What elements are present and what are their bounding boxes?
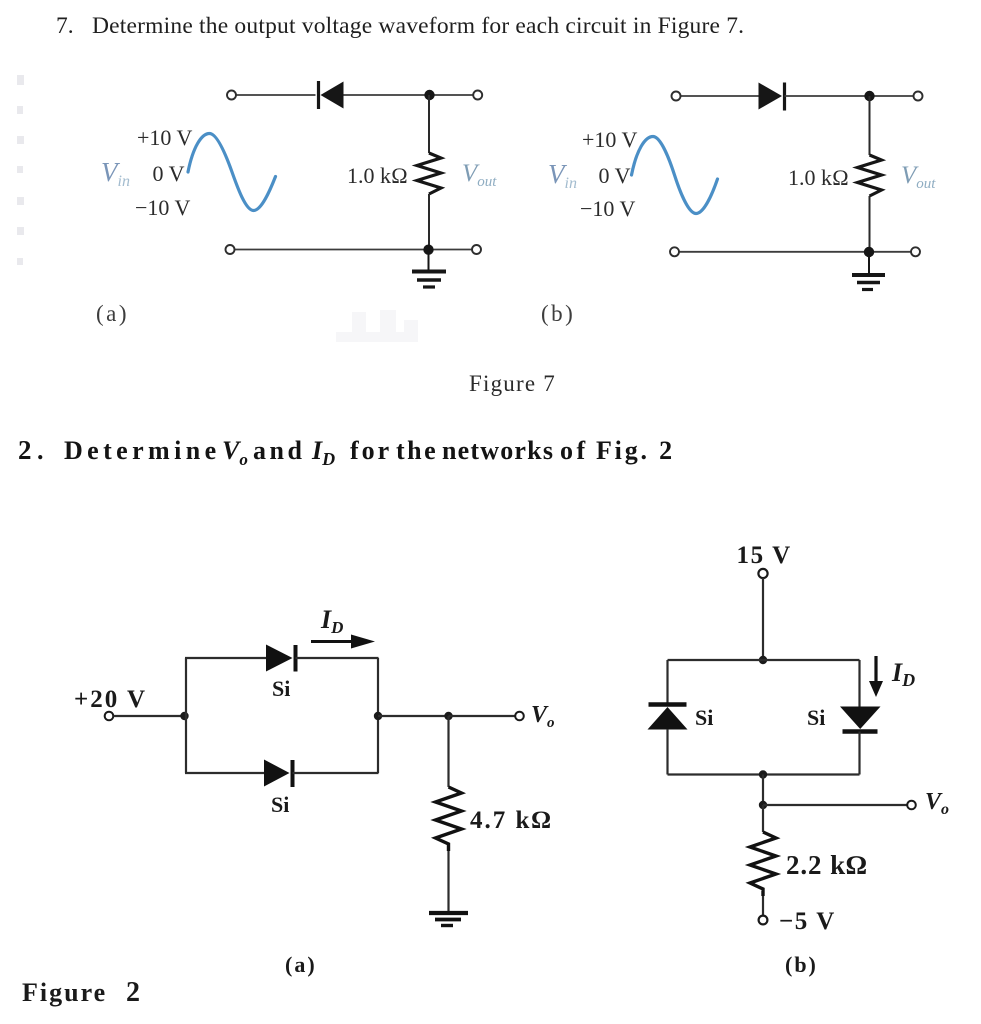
node: left junction	[180, 712, 188, 720]
svg-text:Vout: Vout	[901, 162, 936, 192]
scan artifact: left margin dashes	[17, 75, 24, 265]
wire: bottom junction down to output node	[762, 775, 764, 806]
svg-text:Si: Si	[271, 792, 289, 817]
wire: top branch left segment	[185, 657, 266, 659]
ground: (b)	[852, 256, 885, 290]
arrow: ID direction (a)	[311, 635, 375, 649]
svg-text:Vin: Vin	[101, 157, 130, 190]
resistor R1 1.0 kOhm	[417, 153, 441, 194]
wire: input to left junction	[114, 715, 185, 717]
wire: top branch right segment	[296, 657, 379, 659]
svg-text:0 V: 0 V	[153, 161, 185, 186]
svg-text:Si: Si	[695, 705, 713, 730]
terminal: +20 V input	[105, 712, 114, 721]
wire: output node down to resistor	[447, 716, 449, 787]
svg-text:and: and	[253, 436, 305, 465]
resistor R3 4.7 kOhm	[436, 787, 462, 851]
svg-text:Determine: Determine	[64, 436, 221, 465]
wire: (b) diode to node	[785, 95, 914, 97]
svg-text:ID: ID	[311, 436, 335, 469]
terminal: (a) top-left input	[227, 91, 236, 100]
ground: (a)	[412, 254, 446, 287]
wire: bottom edge of loop	[668, 773, 860, 775]
terminal: (b) top-right output	[914, 92, 923, 101]
svg-text:4.7 kΩ: 4.7 kΩ	[470, 807, 553, 834]
wire: (b) node down to resistor	[869, 96, 871, 155]
svg-text:Vin: Vin	[548, 159, 577, 192]
svg-text:−10 V: −10 V	[135, 195, 191, 220]
svg-text:Si: Si	[272, 676, 290, 701]
node: (a) bottom junction	[423, 245, 433, 255]
terminal: Vo output (a)	[515, 712, 524, 721]
problem 7 title	[56, 13, 744, 39]
svg-text:Vout: Vout	[462, 160, 497, 190]
node: (b) top output junction	[864, 91, 874, 101]
wire: bottom branch right segment	[293, 772, 379, 774]
wire: resistor down to -5 V terminal	[762, 896, 764, 916]
wire: (b) top input wire	[681, 95, 759, 97]
svg-text:−5 V: −5 V	[779, 908, 836, 935]
wire: (b) bottom return wire	[679, 251, 911, 253]
svg-text:Si: Si	[807, 705, 825, 730]
problem 2 title	[18, 435, 675, 469]
wire: (a) bottom return wire	[235, 249, 473, 251]
wire: (a) diode to node	[344, 94, 474, 96]
node: output junction (b)	[759, 801, 767, 809]
diode D1 (pointing left)	[319, 81, 344, 109]
svg-text:.: .	[37, 436, 44, 465]
terminal: (a) bottom-right output	[472, 245, 481, 254]
wire: (a) top input wire	[236, 94, 316, 96]
svg-text:15 V: 15 V	[737, 542, 792, 569]
svg-text:Figure2: Figure2	[22, 977, 142, 1008]
terminal: (b) bottom-right output	[911, 247, 920, 256]
terminal: (a) bottom-left input	[226, 245, 235, 254]
node: bottom junction (b)	[759, 770, 767, 778]
terminal: 15 V supply	[758, 569, 767, 578]
terminal: (a) top-right output	[473, 91, 482, 100]
svg-text:(a): (a)	[96, 301, 129, 326]
svg-text:0 V: 0 V	[599, 163, 631, 188]
wire: (b) resistor to bottom node	[869, 196, 871, 252]
svg-text:Vo: Vo	[531, 702, 555, 731]
node: right junction	[374, 712, 382, 720]
svg-text:ID: ID	[891, 658, 915, 690]
wire: left edge lower segment	[666, 729, 668, 775]
resistor R4 2.2 kOhm	[750, 832, 776, 896]
svg-text:+20 V: +20 V	[74, 686, 147, 713]
wire: top edge of loop	[668, 659, 860, 661]
terminal: Vo output (b)	[907, 801, 916, 810]
wire: right edge upper segment	[858, 660, 860, 707]
terminal: (b) top-left input	[672, 92, 681, 101]
source waveform: (a) sine	[188, 134, 276, 211]
svg-text:(b): (b)	[785, 952, 818, 977]
diode D5 Si (left branch, pointing up)	[648, 705, 688, 730]
wire: (a) resistor down to bottom node	[428, 194, 430, 250]
source waveform: (b) sine	[632, 137, 718, 214]
wire: output node to Vo terminal (b)	[763, 804, 907, 806]
wire: supply down to network	[762, 578, 764, 660]
node: top junction (b)	[759, 656, 767, 664]
svg-text:(b): (b)	[541, 301, 575, 326]
svg-text:networks: networks	[442, 436, 554, 465]
wire: output node down to resistor (b)	[762, 805, 764, 832]
svg-text:of: of	[560, 436, 589, 465]
node: (b) bottom junction	[864, 247, 874, 257]
terminal: (b) bottom-left input	[670, 247, 679, 256]
svg-text:1.0 kΩ: 1.0 kΩ	[788, 165, 849, 190]
resistor R2 1.0 kOhm	[858, 155, 882, 196]
svg-text:2.2 kΩ: 2.2 kΩ	[786, 850, 868, 880]
svg-text:for: for	[350, 436, 392, 465]
svg-text:−10 V: −10 V	[580, 196, 636, 221]
ground: (a) of figure 2	[429, 913, 468, 926]
wire: right junction to output node	[378, 715, 448, 717]
wire: output node to Vo terminal	[449, 715, 516, 717]
wire: (a) node down to resistor	[428, 95, 430, 153]
terminal: -5 V supply	[759, 916, 768, 925]
wire: left branch vertical	[185, 658, 187, 773]
diode D3 Si (top branch, pointing right)	[266, 645, 296, 672]
diode D2 (pointing right)	[759, 83, 785, 111]
svg-text:ID: ID	[320, 605, 343, 637]
svg-text:the: the	[396, 436, 438, 465]
wire: right edge lower segment	[858, 732, 860, 775]
svg-text:1.0 kΩ: 1.0 kΩ	[347, 163, 408, 188]
wire: bottom branch left segment	[185, 772, 264, 774]
svg-text:Determine the output voltage w: Determine the output voltage waveform fo…	[92, 13, 744, 39]
diode D6 Si (right branch, pointing down)	[840, 707, 881, 732]
svg-text:7.: 7.	[56, 13, 74, 39]
svg-text:(a): (a)	[285, 952, 317, 977]
node: output junction (a)	[444, 712, 452, 720]
svg-text:+10 V: +10 V	[582, 127, 638, 152]
svg-text:Fig. 2: Fig. 2	[596, 436, 675, 465]
svg-text:Vo: Vo	[925, 789, 949, 818]
svg-text:Vo: Vo	[222, 436, 248, 469]
svg-text:+10 V: +10 V	[137, 125, 193, 150]
arrow: ID direction (b)	[869, 656, 883, 697]
wire: resistor down to ground	[447, 851, 449, 911]
wire: right branch vertical	[377, 658, 379, 773]
svg-text:Figure 7: Figure 7	[469, 371, 556, 396]
wire: left edge upper segment	[666, 660, 668, 703]
scan artifact: faint smudge under circuit (a)	[336, 310, 418, 342]
diode D4 Si (bottom branch, pointing right)	[264, 760, 293, 788]
svg-text:2: 2	[18, 435, 32, 465]
node: (a) top output junction	[424, 90, 434, 100]
